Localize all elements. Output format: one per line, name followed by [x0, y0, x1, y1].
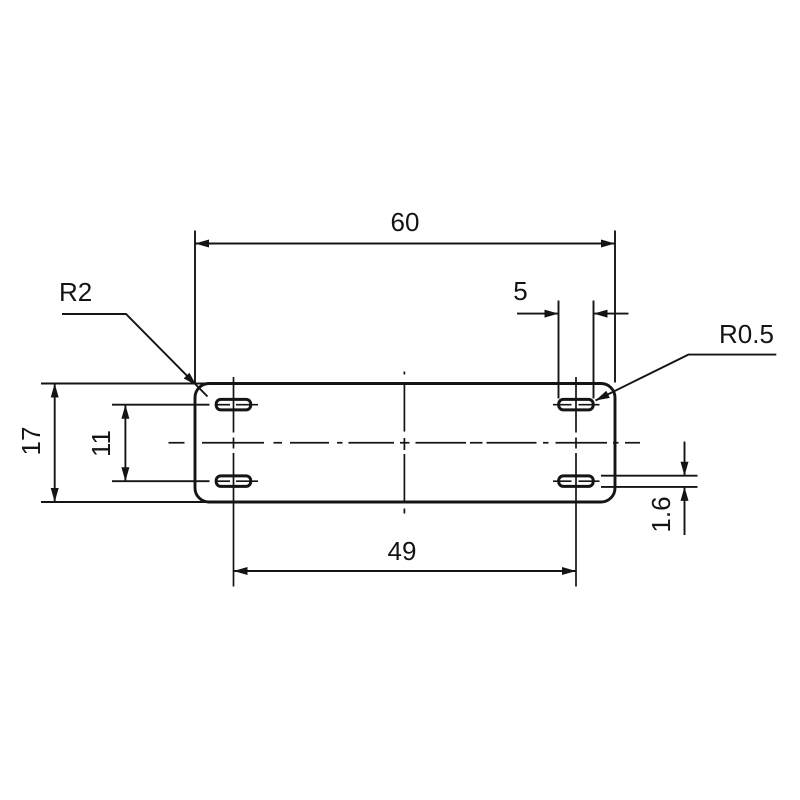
dimension 17: extension line top: [41, 383, 209, 385]
svg-text:5: 5: [513, 276, 527, 306]
dimension 5: right arrowhead: [594, 310, 608, 318]
leader R0.5: leader line: [596, 355, 777, 401]
svg-text:1.6: 1.6: [646, 496, 676, 532]
left slot-column centerline: [233, 377, 235, 587]
dimension 49: dimension line: [234, 570, 577, 572]
svg-text:R2: R2: [59, 277, 92, 307]
svg-text:11: 11: [86, 430, 116, 457]
centerline dashes through bottom-left slot: [216, 480, 230, 482]
dimension 17: top arrowhead: [51, 384, 59, 398]
dimension 49: right arrowhead: [562, 567, 576, 575]
dimension 49: left arrowhead: [234, 567, 248, 575]
dimension 11: bottom arrowhead: [121, 467, 129, 481]
horizontal centerline of plate: [169, 442, 641, 444]
dimension 1.6: upper dimension line segment: [684, 442, 686, 476]
dimension 1.6: lower arrowhead: [681, 487, 689, 501]
svg-text:17: 17: [16, 427, 46, 456]
svg-text:60: 60: [391, 207, 420, 237]
svg-text:R0.5: R0.5: [719, 319, 774, 349]
dimension 11: extension line top: [112, 404, 210, 406]
slot top-right: [559, 399, 594, 410]
dimension 17: bottom arrowhead: [51, 488, 59, 502]
slot bottom-left: [216, 476, 251, 487]
dimension 11: top arrowhead: [121, 405, 129, 419]
centerline dashes through top-left slot: [216, 404, 230, 406]
leader R2: arrowhead: [184, 373, 197, 386]
dimension 11: extension line bottom: [112, 480, 210, 482]
dimension 1.6: extension line top: [601, 475, 698, 477]
dimension 60: extension line left: [194, 231, 196, 383]
dimension 1.6: upper arrowhead: [681, 462, 689, 476]
svg-text:49: 49: [388, 536, 417, 566]
dimension 60: right arrowhead: [601, 240, 615, 248]
centerline dashes through top-right slot: [553, 404, 572, 406]
dimension 5: left arrowhead: [545, 310, 559, 318]
dimension 1.6: extension line bottom: [601, 486, 698, 488]
centerline dashes through bottom-right slot: [553, 480, 572, 482]
dimension 60: dimension line: [195, 243, 615, 245]
dimension 17: extension line bottom: [41, 501, 209, 503]
dimension 5: right dimension line segment: [594, 313, 629, 315]
leader R2: leader line: [62, 314, 208, 397]
dimension 5: left dimension line segment: [517, 313, 559, 315]
dimension 5: extension line right: [593, 301, 595, 399]
dimension 5: extension line left: [558, 301, 560, 399]
leader R0.5: arrowhead: [596, 391, 610, 401]
slot top-left: [216, 399, 251, 410]
dimension 1.6: lower dimension line segment: [684, 487, 686, 535]
dimension 11: dimension line: [124, 405, 126, 482]
dimension 60: extension line right: [614, 231, 616, 383]
dimension 17: dimension line: [54, 384, 56, 503]
plate outline: [195, 384, 615, 503]
slot bottom-right: [559, 476, 594, 487]
right slot-column centerline: [575, 377, 577, 587]
vertical centerline of plate: [403, 372, 405, 514]
dimension 60: left arrowhead: [195, 240, 209, 248]
